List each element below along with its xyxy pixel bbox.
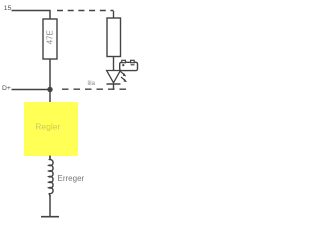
svg-text:lila: lila — [88, 80, 96, 87]
node D+ junction dot — [47, 87, 52, 92]
LED D1 triangle — [107, 71, 121, 83]
LED D1 cathode bar — [107, 83, 121, 85]
svg-text:47E: 47E — [45, 30, 54, 44]
LED D1 emission arrow 1 — [120, 71, 126, 76]
wire resistor bottom to node D+ and regulator — [49, 59, 51, 102]
svg-text:Erreger: Erreger — [58, 174, 85, 183]
wire coil to ground — [49, 195, 51, 217]
wire 15 to resistor top — [12, 11, 51, 20]
resistor R1 47E body — [43, 19, 57, 59]
regulator box Regler — [24, 102, 78, 156]
dashed wire bottom D+ to LED — [62, 88, 126, 90]
svg-text:15: 15 — [4, 5, 12, 12]
exciter winding L1 coil — [49, 156, 53, 197]
LED D1 emission arrow 2 — [121, 77, 127, 82]
battery icon — [120, 60, 138, 70]
wire lamp bottom to LED — [113, 57, 115, 71]
lamp H1 body — [107, 18, 121, 57]
wire D+ horizontal — [12, 89, 51, 91]
wire regulator to exciter coil — [49, 156, 51, 161]
svg-text:D+: D+ — [2, 85, 11, 92]
ground symbol — [41, 216, 59, 218]
svg-text:Regler: Regler — [35, 122, 60, 132]
wire LED cathode to dashed line — [113, 84, 115, 90]
wire lamp top stub — [113, 11, 115, 18]
dashed wire top 15 to lamp — [57, 10, 114, 12]
